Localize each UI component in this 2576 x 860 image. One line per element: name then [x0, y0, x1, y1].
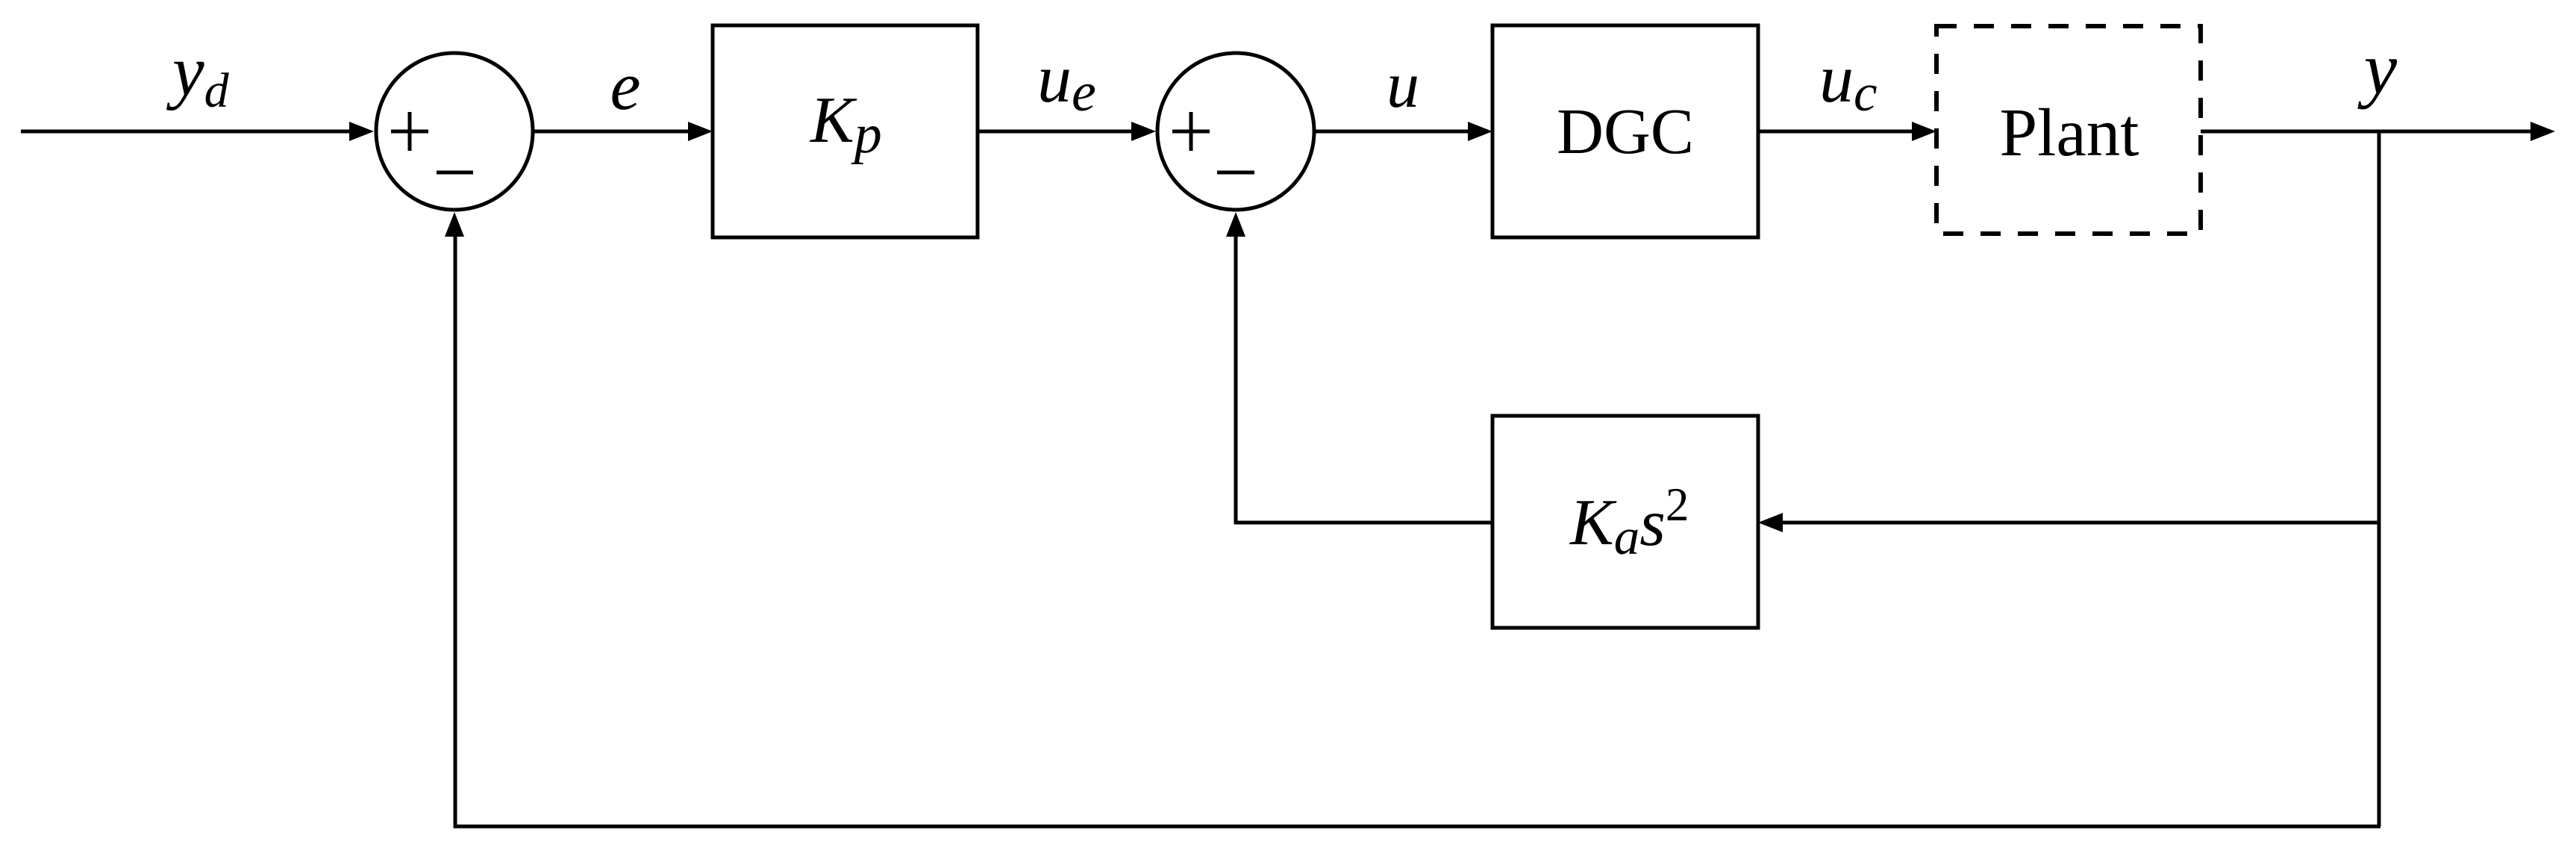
plus sign in S2 — [1172, 112, 1210, 151]
wire: output y from Plant to output arrow — [2201, 122, 2555, 141]
wire: riser into S2 bottom — [1226, 212, 1245, 524]
block Kp (proportional gain) — [713, 25, 978, 237]
summing junction S1 — [376, 53, 533, 210]
wire: e from S1 to Kp block — [534, 122, 713, 141]
summing junction S2 — [1157, 53, 1314, 210]
wire: input y_d line into summing junction S1 — [21, 122, 374, 141]
wire: from Ka s^2 block to riser into S2 — [1234, 521, 1492, 525]
wire: vertical drop from output branch — [2378, 131, 2381, 826]
block DGC — [1492, 25, 1758, 237]
wire: u from S2 to DGC block — [1316, 122, 1492, 141]
minus sign in S2 — [1217, 171, 1254, 175]
wire: u_c from DGC to Plant — [1758, 122, 1936, 141]
svg-text:DGC: DGC — [1557, 95, 1694, 167]
wire: outer feedback left riser into S1 — [445, 212, 464, 828]
plus sign in S1 — [391, 112, 428, 151]
svg-text:u: u — [1387, 49, 1419, 122]
wire: u_e from Kp to summing junction S2 — [978, 122, 1156, 141]
wire: inner feedback from drop to Ka s^2 block — [1758, 513, 2380, 532]
block Ka s^2 (acceleration feedback) — [1492, 416, 1758, 628]
wire: outer feedback bottom run — [454, 825, 2380, 829]
svg-text:Plant: Plant — [1999, 95, 2139, 170]
block Plant (dashed) — [1936, 26, 2201, 234]
minus sign in S1 — [437, 171, 473, 175]
svg-text:e: e — [610, 48, 641, 124]
svg-text:y: y — [2357, 27, 2398, 110]
